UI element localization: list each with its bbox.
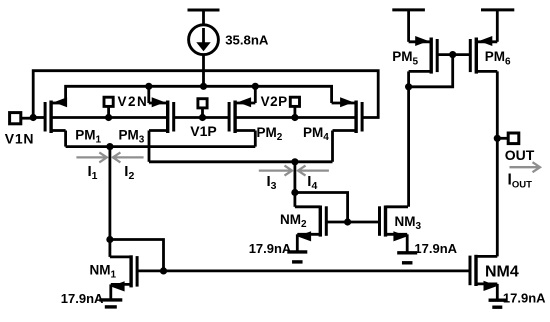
svg-text:V1P: V1P [190, 123, 216, 139]
label V1P [190, 123, 216, 139]
label PM2 [257, 125, 283, 143]
label I3 [267, 173, 277, 192]
transistor PM2 (PMOS input) [229, 86, 255, 146]
label PM5 [392, 49, 418, 67]
wire: V1N to PM1 gate [33, 116, 45, 119]
value label 17.9nA (NM4) [503, 290, 546, 305]
value label 17.9nA (NM3) [414, 241, 457, 256]
wire: PM6 drain to OUT node and NM4 drain [496, 71, 499, 256]
value label 17.9nA (NM2) [249, 241, 292, 256]
junction: NM1 gate node [160, 267, 167, 274]
ground (NM1 source) [99, 284, 122, 307]
svg-text:V1N: V1N [5, 131, 35, 147]
transistor NM4 (NMOS output) [470, 255, 498, 291]
ground (NM4 source) [489, 284, 507, 307]
label NM2 [280, 212, 307, 230]
label I2 [124, 163, 134, 182]
junction: I1/I2 node [106, 143, 113, 150]
current arrow I3 [259, 166, 292, 176]
label PM6 [485, 49, 511, 67]
wire: I3/I4 summing wire (PM3+PM4 drains) [149, 160, 333, 163]
label OUT [505, 147, 535, 163]
wire: V2P bulk net (PM2,PM4 bulks) [235, 116, 356, 119]
label PM4 [303, 125, 329, 143]
wire: I1/I2 node down to NM1 [109, 147, 112, 240]
svg-text:V2P: V2P [261, 94, 288, 109]
value label 35.8nA [225, 33, 269, 48]
junction: V1P node [199, 114, 206, 121]
svg-text:17.9nA: 17.9nA [503, 290, 546, 305]
svg-text:V2N: V2N [118, 94, 149, 109]
wire: current source to tail node [202, 54, 205, 86]
transistor NM3 (NMOS) [380, 206, 409, 242]
junction: OUT node [494, 135, 501, 142]
transistor NM1 (NMOS mirror diode) [110, 240, 137, 292]
label NM4 [485, 263, 519, 280]
label V2N [118, 94, 149, 109]
svg-text:35.8nA: 35.8nA [225, 33, 269, 48]
transistor PM3 (PMOS input) [149, 86, 174, 162]
wire: NM1 drain-gate tie [110, 240, 164, 271]
junction: NM2/NM3 gate node [344, 218, 351, 225]
wire: I3/I4 node down to NM2 [293, 162, 296, 193]
wire: I1/I2 summing wire (PM1+PM2 drains) [66, 145, 256, 148]
label V2P [261, 94, 288, 109]
svg-text:NM4: NM4 [485, 263, 519, 280]
svg-text:17.9nA: 17.9nA [414, 241, 457, 256]
junction: PM5 drain node [405, 83, 412, 90]
junction: PM2 source on rail [252, 83, 259, 90]
wire: V2N bulk net (PM1,PM3 bulks) [51, 116, 168, 119]
junction: I3/I4 node [291, 158, 298, 165]
port V1N [10, 113, 34, 124]
label V1N [5, 131, 35, 147]
value label 17.9nA (NM1) [61, 291, 104, 306]
label NM1 [90, 263, 117, 281]
junction: V2P node [291, 114, 298, 121]
label IOUT [508, 172, 533, 191]
label I4 [307, 173, 317, 192]
label PM3 [119, 128, 145, 146]
wire: PM5-PM6 gate line [437, 53, 470, 56]
port OUT [497, 133, 519, 144]
current source 35.8nA [189, 25, 219, 55]
svg-text:17.9nA: 17.9nA [249, 241, 292, 256]
transistor PM5 (PMOS mirror diode) [409, 36, 438, 87]
port V1P [198, 99, 207, 118]
label NM3 [395, 214, 422, 232]
wire: V1P gate net (PM3,PM2 gates) [174, 116, 229, 119]
wire: common source rail of PM1-PM4 [66, 86, 332, 103]
junction: NM1 drain node [106, 236, 113, 243]
transistor PM4 (PMOS input) [332, 97, 363, 162]
junction: V2N node [105, 114, 112, 121]
current arrow I1 [76, 152, 106, 162]
junction: PM5/PM6 gate node [449, 51, 456, 58]
transistor PM1 (PMOS input) [45, 97, 67, 146]
junction: V1N node [30, 114, 37, 121]
port V2P [290, 97, 299, 117]
wire: PM5 drain to NM3 drain [407, 87, 410, 207]
transistor PM6 (PMOS mirror out) [470, 36, 497, 74]
ground (NM3 source) [397, 234, 417, 262]
junction: tail node [200, 83, 207, 90]
wire: NM1-NM4 gate line [137, 269, 470, 272]
supply bar for bias current source [188, 10, 220, 26]
wire: NM2-NM3 gate line [326, 221, 379, 224]
current arrow I4 [298, 166, 329, 176]
wire: PM5 gate-drain tie [409, 55, 453, 87]
svg-text:17.9nA: 17.9nA [61, 291, 104, 306]
junction: PM3 source on rail [145, 83, 152, 90]
current arrow I2 [113, 152, 144, 162]
port V2N [104, 97, 113, 117]
junction: NM2 drain node [291, 189, 298, 196]
supply bar (PM5 source) [392, 10, 425, 42]
ground (NM2 source) [287, 234, 307, 262]
transistor NM2 (NMOS diode) [295, 193, 326, 242]
wire: NM2 drain to NM2/NM3 gates [295, 193, 348, 223]
svg-text:OUT: OUT [505, 147, 535, 163]
supply bar (PM6 source) [481, 10, 514, 42]
wire: V1N net over-the-top to PM4 gate [33, 71, 378, 118]
label I1 [88, 163, 98, 182]
current arrow IOUT [510, 162, 541, 172]
label PM1 [75, 128, 101, 146]
